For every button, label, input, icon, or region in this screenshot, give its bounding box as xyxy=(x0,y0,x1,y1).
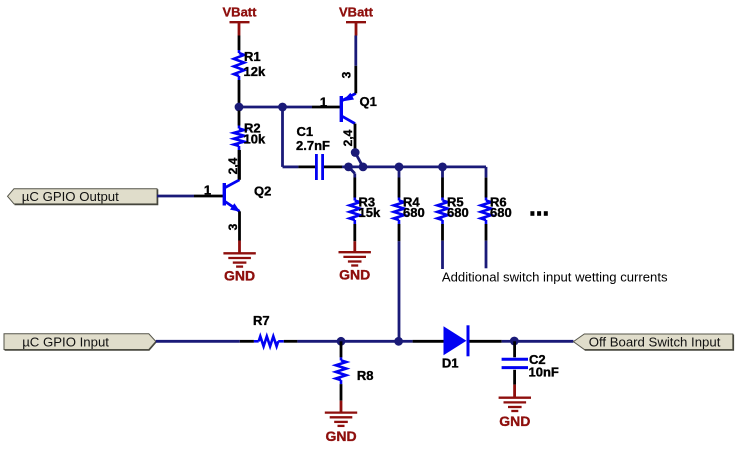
node junction bus right xyxy=(359,163,368,172)
svg-text:VBatt: VBatt xyxy=(223,5,258,20)
svg-text:GND: GND xyxy=(224,268,255,284)
svg-text:D1: D1 xyxy=(442,356,459,371)
wire base net horizontal xyxy=(239,106,283,109)
svg-text:12k: 12k xyxy=(244,64,266,79)
wire D1 to C2 node xyxy=(502,340,514,343)
wire to D1 xyxy=(399,340,413,343)
node junction R5 top xyxy=(438,163,447,172)
svg-text:1: 1 xyxy=(204,182,211,197)
Q2 base pin 1 xyxy=(194,195,223,198)
node junction at R1/R2/Q1-base net xyxy=(235,103,244,112)
svg-text:3: 3 xyxy=(226,223,240,230)
svg-text:10k: 10k xyxy=(244,132,266,147)
Q2 collector pin stub xyxy=(238,150,241,180)
svg-text:Additional switch input wettin: Additional switch input wetting currents xyxy=(442,270,668,285)
Q1 emitter pin 3 stub xyxy=(354,66,357,94)
wire to Q1 base xyxy=(283,106,313,109)
svg-text:10nF: 10nF xyxy=(529,365,559,380)
node junction R8 xyxy=(337,337,346,346)
svg-text:R1: R1 xyxy=(244,49,261,64)
diode D1 xyxy=(413,340,444,343)
node junction bus left xyxy=(344,163,353,172)
wire R4 down to input net xyxy=(398,241,401,341)
node junction C2 xyxy=(510,337,519,346)
wire wetting-current bus xyxy=(342,165,486,168)
wire input port to R7 xyxy=(156,340,240,343)
capacitor C2 10nF xyxy=(513,341,516,357)
svg-text:15k: 15k xyxy=(359,205,381,220)
svg-text:Off Board Switch Input: Off Board Switch Input xyxy=(589,334,721,349)
svg-text:µC GPIO Input: µC GPIO Input xyxy=(22,335,109,350)
node junction R4 top xyxy=(395,163,404,172)
wire port to Q2 base xyxy=(157,195,194,198)
svg-text:2.7nF: 2.7nF xyxy=(296,138,330,153)
ground GND under R8 xyxy=(340,401,343,413)
Q1 base pin 1 xyxy=(312,106,340,109)
resistor R4 680 xyxy=(398,167,401,178)
node junction R4 column xyxy=(394,337,403,346)
svg-text:3: 3 xyxy=(340,71,354,78)
Q1 collector pin stub xyxy=(354,124,357,149)
svg-text:µC GPIO Output: µC GPIO Output xyxy=(22,189,119,204)
wire R5 open stub xyxy=(441,241,444,269)
port uC GPIO Output xyxy=(8,189,158,204)
ground GND under Q2 xyxy=(238,241,241,254)
svg-text:C1: C1 xyxy=(297,124,314,139)
svg-text:Q2: Q2 xyxy=(254,183,271,198)
svg-text:GND: GND xyxy=(339,267,370,283)
svg-text:2,4: 2,4 xyxy=(341,129,355,146)
svg-text:GND: GND xyxy=(325,428,356,444)
wire jog Q1 to bus xyxy=(355,153,363,167)
svg-text:2,4: 2,4 xyxy=(226,157,240,174)
resistor R7 xyxy=(240,340,254,343)
resistor R5 680 xyxy=(441,167,444,178)
svg-text:R8: R8 xyxy=(357,368,374,383)
ground GND under C2 xyxy=(513,385,516,398)
svg-text:R7: R7 xyxy=(253,313,270,328)
port Off Board Switch Input xyxy=(573,334,732,350)
resistor R3 15k xyxy=(353,173,356,177)
wire jog bus to R3 xyxy=(349,167,355,174)
port uC GPIO Input xyxy=(4,334,156,350)
wire R8 node to R4 node xyxy=(341,340,399,343)
resistor R2 10k xyxy=(238,111,241,126)
resistor R6 680 xyxy=(485,178,488,198)
svg-text:680: 680 xyxy=(490,205,512,220)
svg-text:VBatt: VBatt xyxy=(339,5,374,20)
ellipsis more inputs xyxy=(530,211,534,216)
svg-text:680: 680 xyxy=(447,205,469,220)
transistor Q1 PNP xyxy=(340,96,343,122)
svg-text:680: 680 xyxy=(403,205,425,220)
ground GND under R3 xyxy=(353,241,356,252)
node junction below Q1 xyxy=(351,148,360,157)
resistor R1 12k xyxy=(238,36,241,51)
wire R6 open stub xyxy=(485,241,488,269)
wire R7 to R8 node xyxy=(297,340,341,343)
transistor Q2 NPN xyxy=(223,183,226,206)
wire to off-board port xyxy=(514,340,573,343)
resistor R8 xyxy=(340,341,343,357)
wire Q1 emitter to VBatt xyxy=(354,36,357,66)
svg-text:Q1: Q1 xyxy=(360,94,377,109)
Q2 emitter pin 3 stub xyxy=(238,211,241,240)
capacitor C1 2.7nF xyxy=(281,107,284,167)
svg-text:GND: GND xyxy=(499,413,530,429)
svg-text:1: 1 xyxy=(320,95,327,110)
node junction at C1 tap xyxy=(278,103,287,112)
wire bus corner down to R6 xyxy=(485,167,488,178)
